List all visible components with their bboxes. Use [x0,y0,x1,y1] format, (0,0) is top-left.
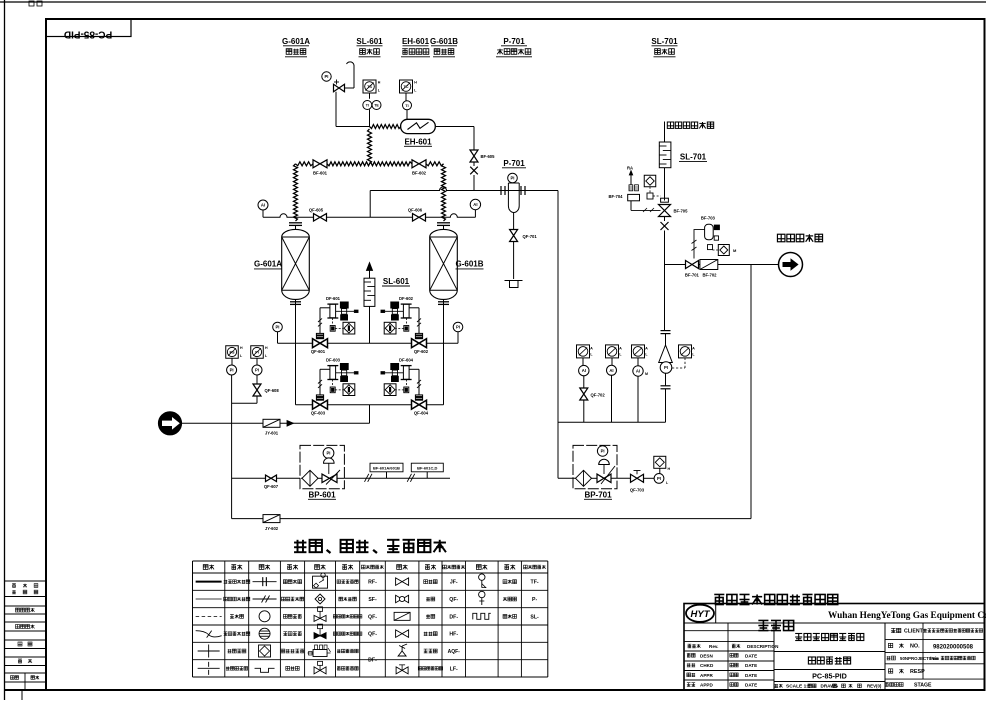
svg-text:P-: P- [532,597,537,603]
svg-text:HYT: HYT [691,609,711,620]
svg-text:DF-603: DF-603 [326,358,341,363]
svg-text:CLIENT: CLIENT [904,629,924,635]
svg-text:L: L [378,89,381,93]
svg-text:BF-701: BF-701 [685,273,700,278]
svg-text:M: M [645,372,648,376]
svg-text:QF-601: QF-601 [311,349,326,354]
svg-text:QF-703: QF-703 [630,488,645,493]
svg-text:TE: TE [374,104,379,108]
svg-text:H: H [240,346,243,350]
svg-text:A: A [692,346,695,350]
svg-text:PI: PI [327,451,331,456]
svg-text:DATE: DATE [745,663,757,668]
svg-text:TC: TC [403,85,408,89]
svg-text:/min: /min [930,656,939,661]
svg-text:AI: AI [636,369,640,374]
svg-text:BF-601A/601B: BF-601A/601B [373,466,400,471]
svg-text:PI: PI [511,176,515,181]
svg-text:SF-: SF- [368,597,377,603]
svg-text:PI: PI [456,325,460,330]
svg-text:JF-: JF- [450,580,458,586]
svg-text:RF-: RF- [368,580,377,586]
svg-text:A: A [590,346,593,350]
svg-text:L: L [645,352,648,356]
svg-text:BF-601C,D: BF-601C,D [417,466,437,471]
svg-text:A: A [619,346,622,350]
svg-text:L: L [240,354,243,358]
svg-text:DF-604: DF-604 [399,358,414,363]
svg-text:APPR: APPR [700,673,713,678]
svg-text:H: H [414,81,417,85]
svg-text:AI: AI [261,203,265,208]
svg-text:H: H [378,81,381,85]
svg-text:TS: TS [367,85,372,89]
svg-text:REV(0): REV(0) [867,684,882,689]
svg-text:QF-608: QF-608 [265,388,280,393]
svg-text:P-701: P-701 [503,37,525,46]
svg-text:DATE: DATE [745,653,757,658]
svg-text:AI: AI [473,202,477,207]
svg-text:NO.: NO. [910,644,920,650]
svg-text:DF-602: DF-602 [399,296,414,301]
svg-text:AQF-: AQF- [448,649,461,655]
svg-text:PI: PI [601,449,605,454]
svg-text:BF-704: BF-704 [609,194,624,199]
svg-text:PI: PI [230,368,234,373]
svg-text:DESN: DESN [700,653,713,658]
svg-text:PS: PS [229,351,235,355]
svg-text:P-701: P-701 [503,159,525,168]
svg-text:PI: PI [255,368,259,373]
svg-text:BF-605: BF-605 [481,154,496,159]
svg-text:BF-702: BF-702 [703,273,718,278]
svg-text:PI: PI [325,74,329,79]
svg-text:PI: PI [276,325,280,330]
svg-text:TI: TI [405,104,408,108]
svg-text:G-601A: G-601A [254,260,282,269]
svg-text:SL-601: SL-601 [383,277,410,286]
svg-text:BF-703: BF-703 [701,216,716,221]
svg-text:QF-602: QF-602 [414,349,429,354]
svg-text:HF-: HF- [449,632,458,638]
svg-text:Rev.: Rev. [709,644,718,649]
svg-text:Wuhan HengYeTong Gas Equipment: Wuhan HengYeTong Gas Equipment Co.,Ltd [828,611,986,621]
svg-text:JY-602: JY-602 [265,526,279,531]
svg-text:SCALE 1:5: SCALE 1:5 [786,684,811,690]
svg-text:EH-601: EH-601 [402,37,430,46]
svg-text:QF-607: QF-607 [264,484,279,489]
svg-text:STAGE: STAGE [914,682,932,688]
svg-text:L: L [265,354,268,358]
svg-text:BP-701: BP-701 [584,491,612,500]
svg-text:PC-85-PID: PC-85-PID [812,672,847,681]
svg-text:G-601A: G-601A [282,37,310,46]
svg-text:APPD: APPD [700,683,713,688]
svg-text:PI: PI [657,476,661,481]
svg-text:TF-: TF- [531,580,539,586]
svg-text:SL-601: SL-601 [356,37,383,46]
svg-text:QF-605: QF-605 [309,208,324,213]
svg-text:BF-705: BF-705 [674,209,689,214]
svg-text:DF-: DF- [368,658,377,664]
svg-text:PI: PI [255,351,259,355]
svg-text:SL-701: SL-701 [651,37,678,46]
svg-text:EH-601: EH-601 [404,138,432,147]
svg-text:H: H [668,467,671,471]
svg-text:TI: TI [366,104,369,108]
svg-text:H: H [265,346,268,350]
svg-text:JY-601: JY-601 [265,431,279,436]
svg-text:982020000508: 982020000508 [933,644,974,650]
svg-text:LF-: LF- [450,666,458,672]
svg-text:AI: AI [609,368,613,373]
svg-text:QF-: QF- [449,597,458,603]
svg-text:DATE: DATE [745,673,757,678]
svg-text:QF-604: QF-604 [414,411,429,416]
svg-text:G-601B: G-601B [455,260,483,269]
svg-text:M: M [733,248,737,253]
svg-text:QF-606: QF-606 [408,208,423,213]
svg-text:QF-: QF- [368,632,377,638]
svg-text:DF-: DF- [449,614,458,620]
svg-text:SL-701: SL-701 [680,153,707,162]
svg-text:L: L [414,89,417,93]
svg-text:L: L [619,352,622,356]
svg-text:PI: PI [664,365,668,370]
svg-text:DF-601: DF-601 [326,296,341,301]
svg-text:A: A [645,346,648,350]
svg-text:RA: RA [627,166,633,171]
svg-text:SL-: SL- [530,614,539,620]
svg-text:L: L [692,352,695,356]
svg-text:L: L [666,481,669,485]
svg-text:BP-601: BP-601 [308,491,336,500]
svg-text:QF-701: QF-701 [523,234,538,239]
svg-text:QF-: QF- [368,614,377,620]
svg-text:L: L [590,352,593,356]
svg-text:BF-602: BF-602 [412,171,427,176]
svg-text:G-601B: G-601B [430,37,458,46]
svg-text:AI: AI [582,368,586,373]
svg-text:QF-702: QF-702 [591,393,606,398]
svg-text:QF-603: QF-603 [311,411,326,416]
svg-text:BF-601: BF-601 [313,171,328,176]
svg-text:CHKD: CHKD [700,663,714,668]
svg-text:PC-85-PID: PC-85-PID [64,29,112,40]
svg-text:RESP: RESP [910,669,925,675]
svg-text:DATE: DATE [745,683,757,688]
